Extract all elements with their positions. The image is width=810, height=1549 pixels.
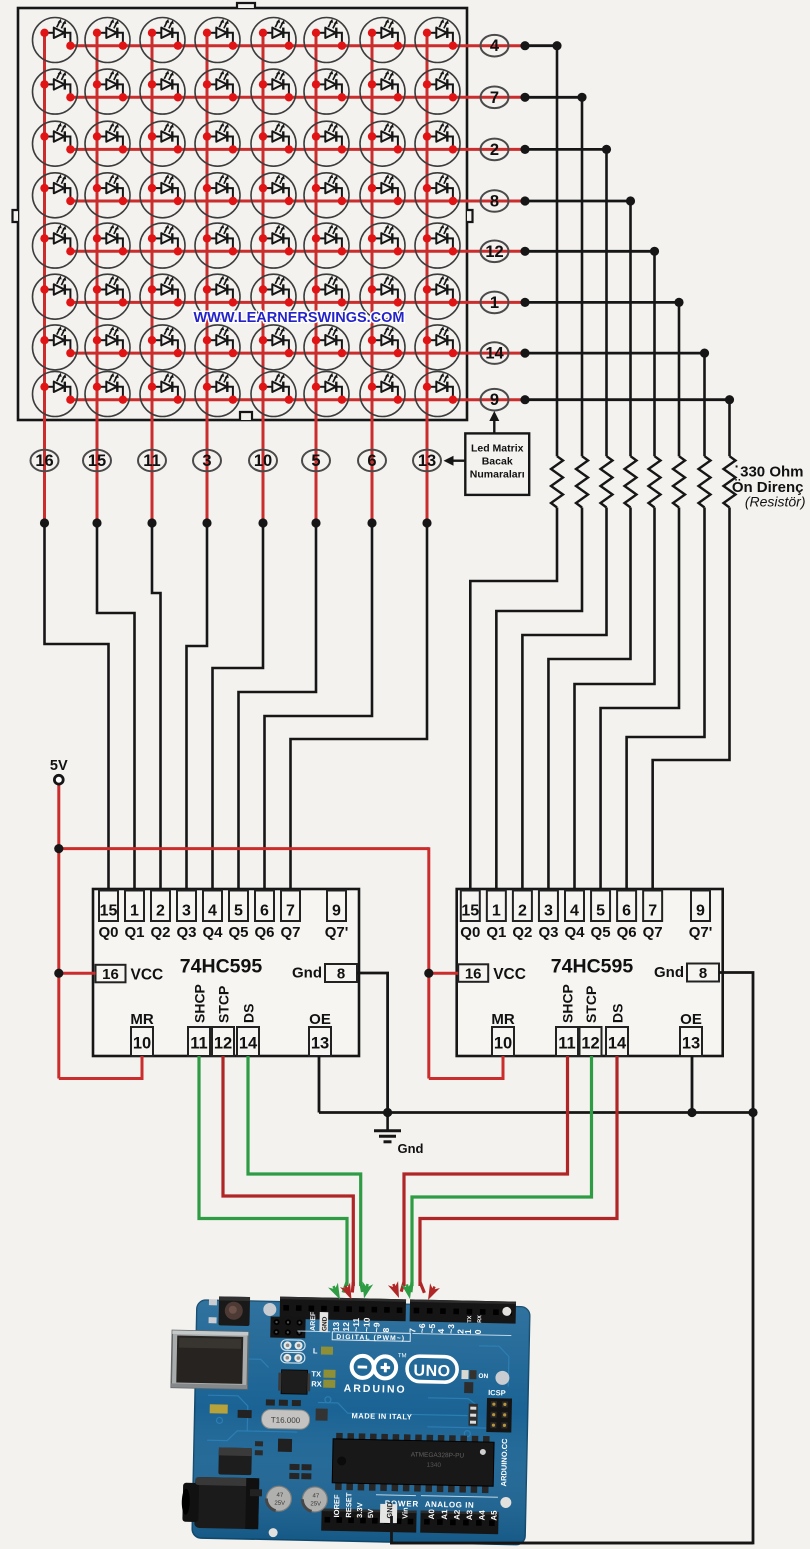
svg-text:Q3: Q3: [538, 924, 558, 941]
svg-text:1: 1: [130, 903, 139, 920]
svg-text:TM: TM: [398, 1353, 407, 1359]
svg-text:25V: 25V: [310, 1501, 321, 1507]
svg-text:Gnd: Gnd: [398, 1141, 424, 1156]
svg-text:15: 15: [461, 903, 479, 920]
svg-text:Q6: Q6: [617, 924, 637, 941]
svg-text:25V: 25V: [274, 1501, 285, 1507]
svg-text:~6: ~6: [417, 1323, 427, 1333]
svg-text:5V: 5V: [366, 1509, 375, 1518]
svg-text:7: 7: [648, 903, 657, 920]
svg-text:Gnd: Gnd: [292, 965, 322, 982]
svg-text:STCP: STCP: [583, 986, 599, 1023]
svg-text:SHCP: SHCP: [192, 984, 208, 1023]
svg-text:2: 2: [490, 141, 499, 159]
svg-text:~10: ~10: [361, 1317, 371, 1332]
svg-text:16: 16: [102, 966, 119, 983]
svg-text:A1: A1: [440, 1509, 449, 1520]
svg-text:13: 13: [418, 452, 436, 470]
svg-text:DS: DS: [610, 1004, 626, 1023]
svg-text:0: 0: [473, 1329, 483, 1334]
svg-text:8: 8: [699, 965, 707, 982]
svg-text:~11: ~11: [351, 1317, 361, 1331]
svg-text:4: 4: [436, 1328, 446, 1333]
svg-text:8: 8: [381, 1327, 391, 1332]
svg-text:Q7': Q7': [689, 924, 713, 941]
svg-text:2: 2: [156, 903, 165, 920]
svg-text:WWW.LEARNERSWINGS.COM: WWW.LEARNERSWINGS.COM: [193, 310, 404, 326]
svg-text:AREF: AREF: [310, 1311, 317, 1331]
svg-text:RESET: RESET: [344, 1492, 354, 1518]
svg-text:7: 7: [286, 903, 295, 920]
svg-text:ARDUINO: ARDUINO: [344, 1383, 407, 1396]
svg-text:TX: TX: [311, 1369, 321, 1378]
svg-text:Q5: Q5: [228, 924, 248, 941]
svg-text:GND: GND: [385, 1501, 394, 1518]
svg-text:10: 10: [254, 452, 272, 470]
svg-text:11: 11: [190, 1035, 207, 1053]
svg-text:10: 10: [133, 1035, 151, 1053]
svg-text:SHCP: SHCP: [560, 984, 576, 1023]
svg-text:74HC595: 74HC595: [180, 956, 263, 978]
svg-text:ATMEGA328P-PU: ATMEGA328P-PU: [411, 1451, 465, 1459]
svg-text:STCP: STCP: [216, 986, 232, 1023]
svg-text:13: 13: [682, 1035, 700, 1053]
svg-text:Q2: Q2: [150, 924, 170, 941]
svg-text:12: 12: [214, 1035, 232, 1053]
svg-text:Q5: Q5: [591, 924, 611, 941]
svg-text:IOREF: IOREF: [332, 1494, 341, 1518]
svg-text:4: 4: [490, 37, 500, 55]
svg-text:1: 1: [492, 903, 501, 920]
svg-text:MADE IN ITALY: MADE IN ITALY: [352, 1411, 413, 1421]
svg-text:MR: MR: [130, 1011, 153, 1028]
svg-text:MR: MR: [491, 1011, 514, 1028]
svg-text:5V: 5V: [50, 758, 68, 774]
svg-text:Q1: Q1: [124, 924, 144, 941]
svg-text:13: 13: [331, 1322, 341, 1332]
svg-text:16: 16: [465, 965, 482, 982]
svg-text:11: 11: [558, 1035, 575, 1053]
svg-text:15: 15: [88, 452, 106, 470]
svg-text:Q3: Q3: [176, 924, 196, 941]
svg-text:11: 11: [143, 452, 160, 470]
svg-text:14: 14: [608, 1035, 627, 1053]
svg-text:10: 10: [494, 1035, 512, 1053]
svg-text:3: 3: [202, 452, 211, 470]
svg-text:330 Ohm: 330 Ohm: [740, 464, 803, 481]
svg-text:12: 12: [341, 1322, 351, 1332]
svg-text:6: 6: [622, 903, 631, 920]
svg-text:Q6: Q6: [254, 924, 274, 941]
svg-text:Q1: Q1: [486, 924, 506, 941]
svg-text:ICSP: ICSP: [488, 1388, 506, 1397]
svg-text:A4: A4: [477, 1510, 486, 1521]
svg-text:A5: A5: [489, 1510, 498, 1521]
svg-text:1: 1: [463, 1329, 473, 1334]
svg-text:Q0: Q0: [460, 924, 480, 941]
svg-text:12: 12: [485, 243, 503, 261]
svg-text:4: 4: [208, 903, 217, 920]
svg-text:UNO: UNO: [413, 1362, 450, 1380]
svg-text:Q0: Q0: [98, 924, 118, 941]
svg-text:3.3V: 3.3V: [355, 1502, 364, 1518]
svg-text:DIGITAL (PWM~): DIGITAL (PWM~): [336, 1334, 405, 1342]
svg-text:Q2: Q2: [512, 924, 532, 941]
svg-text:8: 8: [337, 966, 345, 983]
svg-text:Gnd: Gnd: [654, 964, 684, 981]
svg-text:7: 7: [490, 89, 499, 107]
svg-text:RX: RX: [477, 1315, 483, 1323]
svg-text:12: 12: [581, 1035, 599, 1053]
svg-text:OE: OE: [309, 1011, 331, 1028]
svg-text:16: 16: [35, 452, 53, 470]
svg-text:ARDUINO.CC: ARDUINO.CC: [499, 1438, 509, 1487]
svg-text:1: 1: [490, 294, 499, 312]
svg-text:8: 8: [490, 193, 499, 211]
svg-text:DS: DS: [241, 1004, 257, 1023]
svg-text:4: 4: [570, 903, 579, 920]
svg-text:13: 13: [311, 1035, 329, 1053]
svg-text:GND: GND: [321, 1316, 328, 1331]
svg-text:3: 3: [544, 903, 553, 920]
svg-text:L: L: [313, 1346, 318, 1355]
svg-text:Vin: Vin: [400, 1507, 409, 1519]
svg-text:OE: OE: [680, 1011, 702, 1028]
svg-text:9: 9: [696, 903, 705, 920]
svg-text:6: 6: [260, 903, 269, 920]
svg-text:Q7: Q7: [280, 924, 300, 941]
svg-text:ON: ON: [478, 1373, 488, 1380]
svg-text:14: 14: [485, 345, 504, 363]
svg-text:Led Matrix: Led Matrix: [471, 443, 524, 455]
svg-text:5: 5: [311, 452, 320, 470]
svg-text:(Resistör): (Resistör): [745, 494, 806, 510]
svg-text:RX: RX: [311, 1379, 322, 1388]
svg-text:Numaraları: Numaraları: [470, 469, 525, 481]
svg-text:Q4: Q4: [564, 924, 585, 941]
svg-text:Bacak: Bacak: [482, 456, 513, 468]
svg-text:3: 3: [182, 903, 191, 920]
svg-text:14: 14: [239, 1035, 258, 1053]
svg-text:1340: 1340: [427, 1462, 442, 1469]
svg-text:2: 2: [518, 903, 527, 920]
svg-text:TX: TX: [467, 1315, 473, 1322]
svg-text:47: 47: [313, 1493, 320, 1499]
svg-text:9: 9: [332, 903, 341, 920]
svg-text:15: 15: [100, 903, 118, 920]
svg-text:5: 5: [596, 903, 605, 920]
svg-text:VCC: VCC: [493, 966, 526, 983]
svg-text:74HC595: 74HC595: [551, 956, 634, 978]
svg-text:A3: A3: [465, 1509, 474, 1520]
svg-text:T16.000: T16.000: [271, 1416, 301, 1426]
svg-text:A0: A0: [427, 1509, 436, 1520]
svg-text:VCC: VCC: [131, 966, 164, 983]
svg-text:Q7': Q7': [325, 924, 349, 941]
svg-text:·: ·: [735, 458, 740, 474]
svg-text:9: 9: [490, 391, 499, 409]
svg-text:ANALOG IN: ANALOG IN: [425, 1500, 475, 1510]
svg-text:6: 6: [367, 452, 376, 470]
svg-text:5: 5: [234, 903, 243, 920]
svg-text:Q7: Q7: [643, 924, 663, 941]
svg-text:A2: A2: [452, 1509, 461, 1520]
svg-text:Q4: Q4: [202, 924, 223, 941]
svg-text:47: 47: [277, 1493, 284, 1499]
